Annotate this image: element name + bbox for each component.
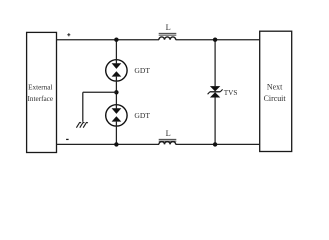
wire ground vertical bbox=[82, 92, 84, 122]
junction dot top wire / TVS column bbox=[213, 38, 217, 42]
svg-text:L: L bbox=[166, 129, 171, 138]
label + bbox=[67, 33, 70, 36]
svg-text:Next: Next bbox=[267, 83, 283, 92]
wire top left bbox=[57, 39, 160, 41]
wire bottom left bbox=[56, 143, 159, 145]
wire TVS column top bbox=[214, 40, 216, 87]
wire GDT column bottom bbox=[115, 126, 117, 144]
wire ground horizontal bbox=[83, 91, 117, 93]
junction dot ground tee bbox=[114, 90, 118, 94]
label - bbox=[66, 139, 69, 140]
ground (chassis) bbox=[76, 122, 87, 127]
wire TVS column bottom bbox=[214, 98, 216, 145]
wire bottom right bbox=[176, 143, 260, 145]
inductor L bottom bbox=[159, 129, 177, 145]
box External Interface bbox=[27, 32, 57, 152]
svg-text:TVS: TVS bbox=[224, 88, 238, 97]
svg-text:Circuit: Circuit bbox=[264, 94, 287, 103]
wire top right bbox=[176, 39, 260, 41]
GDT tube 2 bbox=[106, 105, 127, 126]
wire between GDTs bbox=[115, 81, 117, 105]
wire GDT column top bbox=[115, 40, 117, 60]
svg-text:L: L bbox=[166, 23, 171, 32]
inductor L top bbox=[159, 23, 177, 40]
svg-text:GDT: GDT bbox=[134, 111, 150, 120]
junction dot bottom wire / TVS column bbox=[213, 142, 217, 146]
svg-text:GDT: GDT bbox=[134, 66, 150, 75]
GDT tube 1 bbox=[106, 60, 127, 81]
junction dot top wire / GDT column bbox=[114, 38, 118, 42]
svg-text:Interface: Interface bbox=[28, 95, 54, 103]
TVS diode (bidirectional) bbox=[208, 86, 223, 97]
box Next Circuit bbox=[260, 31, 292, 151]
junction dot bottom wire / GDT column bbox=[114, 142, 118, 146]
svg-text:External: External bbox=[28, 84, 52, 92]
